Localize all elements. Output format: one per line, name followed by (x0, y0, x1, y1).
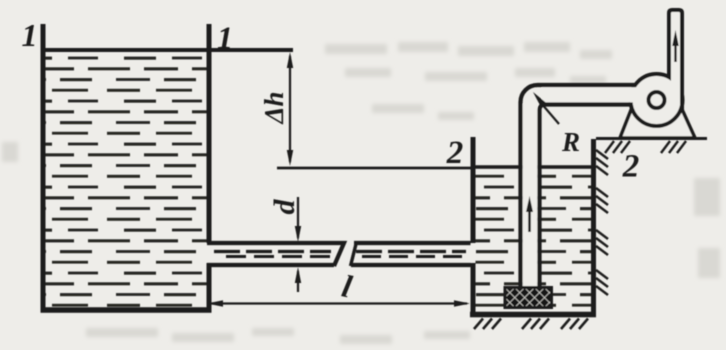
pump support trestle (620, 105, 695, 138)
connecting pipe bottom edge left segment (207, 263, 334, 267)
arrowhead Δh top (287, 52, 293, 68)
connecting pipe top edge left segment (207, 243, 344, 266)
earth hatch right of right wall (596, 150, 608, 295)
pump volute circle (631, 74, 683, 126)
water dashes in pipe right row1 (356, 250, 466, 253)
right tank water fill (476, 170, 592, 312)
right tank left wall upper (471, 137, 476, 243)
svg-text:2: 2 (622, 149, 640, 185)
right tank bottom (470, 312, 596, 318)
arrowhead d down (295, 226, 301, 242)
ground hatch under right tank (474, 319, 588, 330)
svg-text:1: 1 (217, 20, 233, 56)
suction pipe left edge with elbow outer bend (521, 85, 635, 288)
strainer (foot valve) (505, 288, 552, 308)
water dashes in pipe right row2 (362, 255, 466, 258)
arrowhead Δh bottom (287, 150, 293, 166)
svg-text:1: 1 (22, 17, 38, 53)
left tank water fill (46, 52, 207, 308)
arrowhead d up (295, 267, 301, 283)
outlet pipe interior erase (671, 10, 681, 95)
svg-text:R: R (561, 127, 580, 157)
horizontal pipe interior erase (542, 87, 640, 102)
connecting pipe right segment bottom (351, 263, 471, 267)
left tank bottom (41, 307, 212, 313)
suction pipe interior erase (523, 104, 538, 288)
pump ground line (596, 137, 707, 140)
connecting pipe right segment top (354, 241, 471, 245)
up arrow in suction pipe (528, 210, 531, 232)
water dashes in pipe row1 (214, 250, 331, 253)
R leader arrow (541, 103, 559, 124)
arrowhead l right (454, 300, 470, 306)
pump shaft circle (649, 92, 665, 108)
outlet pipe walls (669, 10, 682, 111)
left tank right wall upper (207, 24, 212, 243)
svg-text:Δh: Δh (259, 92, 289, 125)
dimension d upper line (297, 197, 299, 238)
svg-text:d: d (268, 199, 301, 215)
dimension line Δh (289, 56, 291, 162)
hatch under pump ground (605, 141, 686, 153)
water surface line 1-1 (43, 48, 293, 52)
connecting pipe top edge right segment (351, 242, 357, 266)
svg-text:2: 2 (446, 135, 464, 171)
up arrow in outlet pipe (674, 44, 676, 62)
dimension d lower line (297, 271, 299, 292)
right tank right wall (591, 139, 596, 312)
right tank left wall lower (471, 263, 476, 312)
suction pipe right edge with elbow inner bend (540, 105, 631, 289)
left tank right wall lower (207, 263, 212, 312)
left tank left wall (41, 24, 46, 312)
right tank water surface (476, 165, 592, 169)
water dashes in pipe row2 (226, 255, 331, 258)
dimension line l (210, 302, 467, 304)
arrowhead l left (207, 300, 223, 306)
level line 2-2 (277, 167, 471, 170)
